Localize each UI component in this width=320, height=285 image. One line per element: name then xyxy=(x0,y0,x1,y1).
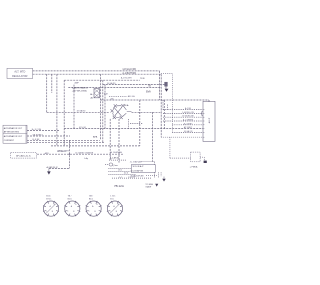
svg-text:J-Ap: J-Ap xyxy=(84,157,89,160)
svg-text:1-AWG#GA(2C): 1-AWG#GA(2C) xyxy=(72,86,88,89)
fan-out wire row xyxy=(163,109,203,111)
wire horizontal y80.2 xyxy=(64,79,140,81)
dashed link y137.2 xyxy=(161,136,203,138)
bottom dashed row y178.1 xyxy=(112,177,152,179)
svg-text:(.a=mm*: (.a=mm* xyxy=(128,177,135,179)
wire vertical x46.7 xyxy=(46,74,48,112)
svg-text:A: A xyxy=(50,205,52,208)
svg-text:TB: TB xyxy=(148,84,151,87)
bundle row y142.7 xyxy=(27,142,105,144)
svg-text:C: C xyxy=(88,211,90,213)
svg-text:B: B xyxy=(94,211,96,213)
interlock connector block with X xyxy=(94,89,100,98)
right connector tall xyxy=(203,101,215,141)
dashed vertical x172.5 xyxy=(172,74,174,132)
battery box dashed xyxy=(191,152,201,162)
svg-text:B1m: B1m xyxy=(46,196,51,198)
svg-text:1-8 GA-K RD: 1-8 GA-K RD xyxy=(122,68,136,71)
wire horizontal y84.6 xyxy=(103,84,165,86)
svg-text:APA: APA xyxy=(93,135,98,138)
svg-text:AL-: AL- xyxy=(90,93,93,96)
legend table box xyxy=(3,125,27,143)
svg-text:B1m: B1m xyxy=(68,198,73,200)
svg-text:1 Gm: 1 Gm xyxy=(110,196,115,198)
fan-out wire row xyxy=(163,116,203,118)
key switch jumpers xyxy=(113,106,127,118)
wire vertical x209 into connector xyxy=(208,100,210,102)
wire vertical x74 xyxy=(73,85,75,129)
legend wire row1 xyxy=(27,129,60,131)
svg-text:18 GA RD: 18 GA RD xyxy=(77,110,87,113)
svg-text:AFTER DE REG: AFTER DE REG xyxy=(4,131,20,134)
wire top run y70.9 xyxy=(33,70,160,72)
wire y154.2 xyxy=(37,153,124,155)
legend wire row2 xyxy=(27,135,70,137)
fan-out wire row xyxy=(163,112,203,114)
long wire y128.6 xyxy=(64,128,203,130)
wire second run y74.2 xyxy=(33,73,162,75)
svg-text:AMP: AMP xyxy=(75,82,80,85)
svg-text:7B /: 7B / xyxy=(68,196,72,198)
svg-text:16 GA OR: 16 GA OR xyxy=(184,130,193,133)
svg-text:A: A xyxy=(71,205,73,208)
svg-text:M 54 M: M 54 M xyxy=(79,127,86,129)
ground right of rows xyxy=(163,177,165,179)
wire horizontal y100 long xyxy=(100,99,209,101)
center wide block xyxy=(131,165,155,173)
svg-text:16 GA RD-BK: 16 GA RD-BK xyxy=(182,115,194,118)
svg-text:A 14 B AP BK: A 14 B AP BK xyxy=(131,169,144,172)
row y160.1 xyxy=(109,159,126,161)
fan-out wire row xyxy=(172,131,203,133)
fan-out wire row xyxy=(172,124,203,126)
solid vertical right x159.5 xyxy=(159,71,161,100)
svg-text:A: A xyxy=(113,205,115,208)
svg-text:(J em: (J em xyxy=(113,165,118,167)
svg-text:JC. B AP-AM: JC. B AP-AM xyxy=(130,160,142,163)
svg-text:B7rm: B7rm xyxy=(46,197,51,200)
svg-text:APR: APR xyxy=(45,152,50,155)
svg-text:+BK WH-18GA: +BK WH-18GA xyxy=(72,89,87,92)
svg-text:78 B: 78 B xyxy=(140,78,145,80)
svg-text:A/D GA: A/D GA xyxy=(128,95,135,98)
small ground near caption xyxy=(155,184,158,187)
battery lead xyxy=(200,156,204,158)
wire horizontal y112.3 left xyxy=(47,111,109,113)
dashed branch y73.6 xyxy=(161,73,172,75)
key switch right link xyxy=(127,111,132,113)
svg-text:A-1 AP-M: A-1 AP-M xyxy=(110,156,119,159)
svg-text:B1m: B1m xyxy=(89,198,94,200)
svg-text:D: D xyxy=(75,204,77,206)
wire vertical x51.8 xyxy=(51,74,53,93)
wire vertical x139.8 xyxy=(139,100,141,146)
switch drop verticals xyxy=(109,119,111,160)
svg-text:A: A xyxy=(92,205,94,208)
ground drop x69.4 xyxy=(68,140,70,168)
svg-text:AP GA JC: AP GA JC xyxy=(57,150,67,153)
connector circle 3 xyxy=(86,201,101,216)
wire vertical x56.9 xyxy=(56,74,58,146)
wire vertical x64.2 xyxy=(63,80,65,146)
svg-text:ALT. MTD: ALT. MTD xyxy=(14,71,25,74)
svg-text:REGULATOR: REGULATOR xyxy=(12,75,28,78)
dashed vertical x169.9 xyxy=(169,137,171,158)
svg-text:BVA: BVA xyxy=(146,90,151,93)
fan-out wire row xyxy=(163,120,203,122)
connector circle 4 xyxy=(107,201,122,216)
svg-text:B+ 8 COM: B+ 8 COM xyxy=(32,129,42,131)
fuse with lead xyxy=(165,82,168,86)
svg-text:B: B xyxy=(116,211,118,213)
wire horizontal y112.3 right xyxy=(132,111,161,113)
svg-text:M 10 APLAN: M 10 APLAN xyxy=(111,151,123,154)
small connector ellipse xyxy=(109,163,113,166)
regulator box ALT MTD REGULATOR xyxy=(7,68,33,78)
svg-text:D: D xyxy=(96,204,98,206)
wire vertical x105 xyxy=(104,85,106,129)
connector circle 1 chord xyxy=(46,204,55,213)
svg-text:7B.12A: 7B.12A xyxy=(114,184,124,188)
svg-text:B: B xyxy=(73,211,75,213)
wire vertical x100.4 xyxy=(99,74,101,140)
ground run y168.4 xyxy=(49,167,70,169)
verticals into block xyxy=(151,112,153,161)
wire y145.9 xyxy=(51,145,140,147)
svg-text:/GA W: /GA W xyxy=(145,186,151,189)
connector circle 2 xyxy=(65,201,80,216)
svg-text:A-1 RD-WH: A-1 RD-WH xyxy=(121,77,132,80)
svg-text:B- 8 BK: B- 8 BK xyxy=(33,139,41,141)
svg-text:4w b: 4w b xyxy=(124,172,129,174)
ground symbol xyxy=(48,168,50,171)
svg-text:A-7AP-W JC: A-7AP-W JC xyxy=(47,166,59,169)
svg-text:A-1 GREEN: A-1 GREEN xyxy=(183,119,194,122)
fan-out top join xyxy=(162,100,164,110)
svg-text:GA 8 BRKT: GA 8 BRKT xyxy=(33,134,44,137)
svg-text:-a.-(: -a.-( xyxy=(118,177,122,179)
svg-text:C: C xyxy=(67,211,69,213)
svg-text:AL: AL xyxy=(91,96,94,99)
svg-text:A-1 BK: A-1 BK xyxy=(185,107,192,110)
svg-text:GB /: GB / xyxy=(89,196,94,198)
wire vertical x102.8 xyxy=(102,80,104,143)
legend wire row3 xyxy=(27,139,100,141)
battery terminal blob xyxy=(204,161,207,163)
svg-text:A-1 GREY: A-1 GREY xyxy=(184,122,194,125)
svg-text:1-40YELLOW: 1-40YELLOW xyxy=(182,112,194,114)
svg-text:AP-CAB (+6) JC: AP-CAB (+6) JC xyxy=(16,155,31,158)
solid vertical right x161.2 xyxy=(160,74,162,137)
svg-text:A.M.P: A.M.P xyxy=(208,117,211,123)
svg-text:= PMUA: = PMUA xyxy=(190,165,198,168)
svg-text:AtM: AtM xyxy=(104,93,108,96)
harness smudge row xyxy=(68,87,160,89)
svg-text:16 GA BK ORANGE: 16 GA BK ORANGE xyxy=(75,152,94,155)
svg-text:B: B xyxy=(52,211,54,213)
svg-text:16 GA RD: 16 GA RD xyxy=(107,82,117,85)
short row y123.4 xyxy=(130,122,143,124)
connector circle 1 xyxy=(43,201,58,216)
svg-text:4B A-: 4B A- xyxy=(124,104,129,107)
svg-text:W 14 B A-P: W 14 B A-P xyxy=(133,165,144,168)
frame ground box xyxy=(11,153,37,158)
block left rows xyxy=(108,168,131,170)
key switch terminal cluster xyxy=(114,104,117,107)
connector circle 4 chord xyxy=(110,204,119,213)
svg-text:ALTERNATOR CKT: ALTERNATOR CKT xyxy=(4,135,23,138)
svg-text:B m: B m xyxy=(110,198,114,200)
svg-text:CURRENT: CURRENT xyxy=(4,140,15,142)
svg-text:A-1 BATT.RD: A-1 BATT.RD xyxy=(122,72,136,75)
svg-text:ALTERNATOR CKT: ALTERNATOR CKT xyxy=(4,127,23,130)
dashed y158.1 to battery xyxy=(170,157,191,159)
